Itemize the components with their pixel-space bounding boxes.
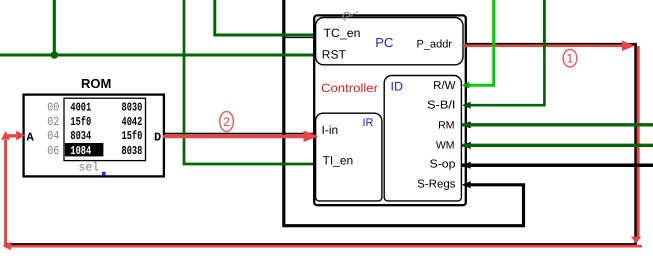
red circled 2 — [220, 112, 234, 132]
red annotation: bottom horizontal — [10, 245, 642, 248]
svg-text:IR: IR — [363, 117, 374, 129]
wire: TI_en dark green (vertical from top, right into IR) — [184, 0, 315, 164]
svg-text:06: 06 — [47, 144, 59, 158]
ID block — [384, 75, 461, 200]
svg-text:15f0: 15f0 — [70, 115, 91, 129]
ROM inner table — [64, 98, 146, 160]
wire: WM dark green output — [462, 144, 653, 147]
svg-text:I-in: I-in — [322, 123, 339, 137]
pin arrowhead S-op — [462, 162, 471, 169]
gray squiggle scribble — [343, 12, 349, 20]
controller U1 outer box — [314, 15, 466, 205]
svg-text:TI_en: TI_en — [323, 154, 354, 168]
wire: D to I-in black — [165, 133, 314, 135]
svg-text:8030: 8030 — [122, 100, 143, 114]
ROM highlight cell — [65, 143, 104, 156]
red annotation 2: D to I-in — [163, 135, 304, 139]
svg-text:2: 2 — [223, 115, 230, 129]
wire: S-op black output — [462, 163, 653, 166]
wire: R/W bright green (right then up to top) — [462, 0, 494, 85]
svg-text:PC: PC — [375, 35, 393, 50]
wire: left dark green vertical from top — [53, 0, 56, 57]
svg-text:8034: 8034 — [70, 129, 91, 143]
wire: RM dark green output — [462, 123, 653, 126]
svg-text:4042: 4042 — [122, 115, 143, 129]
wire overlay: R/W vertical over red — [492, 0, 495, 47]
wire: P_addr black path (right, down right edge, along bottom to left) — [4, 44, 636, 244]
wire: TC_en dark green (vertical from top, right into PC) — [215, 0, 315, 35]
red annotation 1: vertical at right — [637, 46, 640, 237]
blue cursor — [102, 172, 106, 176]
svg-text:4001: 4001 — [70, 100, 91, 114]
red annotation: left vertical up — [4, 140, 7, 246]
svg-text:S-B/I: S-B/I — [427, 99, 456, 111]
svg-text:RM: RM — [438, 119, 454, 131]
svg-text:02: 02 — [47, 115, 59, 129]
red circled 1 — [563, 50, 577, 67]
svg-text:1084: 1084 — [70, 144, 91, 158]
svg-text:S-op: S-op — [430, 158, 456, 170]
svg-text:R/W: R/W — [433, 80, 456, 92]
svg-text:TC_en: TC_en — [324, 26, 361, 40]
ROM box — [24, 95, 164, 177]
svg-text:D: D — [154, 131, 161, 145]
red annotation 1: horizontal from P_addr — [463, 44, 625, 47]
pin arrowhead WM — [462, 142, 471, 149]
wire: RST dark green horizontal — [0, 53, 314, 56]
svg-text:P_addr: P_addr — [417, 39, 453, 51]
svg-text:15f0: 15f0 — [122, 129, 143, 143]
svg-text:00: 00 — [47, 100, 59, 114]
svg-text:1: 1 — [567, 52, 574, 66]
svg-text:Controller: Controller — [321, 81, 378, 95]
svg-text:sel: sel — [78, 161, 99, 175]
svg-text:S-Regs: S-Regs — [417, 179, 456, 191]
wire: S-Regs black feedback path (pin right, down, left, up to top edge) — [284, 0, 524, 226]
IR block — [316, 113, 382, 201]
svg-text:A: A — [27, 130, 35, 144]
svg-text:RST: RST — [322, 47, 347, 61]
svg-text:8038: 8038 — [122, 144, 143, 158]
pin arrowhead R/W — [462, 82, 470, 89]
PC block — [316, 18, 463, 65]
pin arrowhead S-B/I — [462, 102, 471, 109]
wire: S-B/I dark green (right then up to top) — [462, 0, 544, 105]
svg-text:04: 04 — [47, 129, 59, 143]
svg-text:WM: WM — [436, 140, 455, 152]
pin arrowhead RM — [462, 121, 471, 128]
wire: thin black stub from S-Regs vertical into controller — [283, 37, 314, 39]
svg-text:ID: ID — [391, 79, 404, 93]
wire overlay: S-B/I vertical over red — [543, 0, 546, 50]
wire: black into ROM A — [4, 135, 23, 137]
svg-text:ROM: ROM — [81, 76, 111, 91]
red annotation: arrow into A — [7, 134, 17, 137]
wire overlays: outputs crossing over red vertical — [462, 123, 653, 126]
pin arrowhead S-Regs — [462, 181, 471, 188]
junction dot — [51, 51, 59, 59]
